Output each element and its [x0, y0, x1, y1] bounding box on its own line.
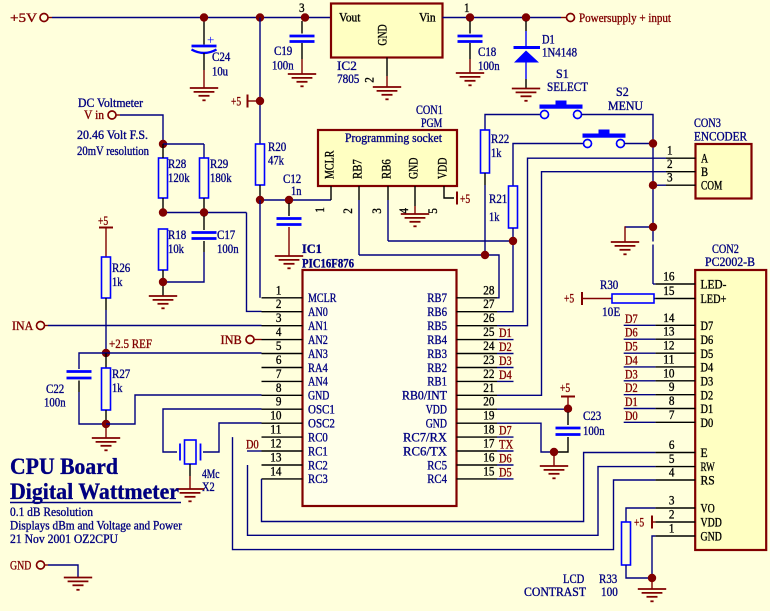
junction C12/MCLR — [285, 196, 293, 204]
wire ground stem C23 node — [553, 452, 555, 466]
svg-text:VO: VO — [701, 502, 715, 516]
junction S2/common rail — [649, 139, 657, 147]
svg-text:RC6/TX: RC6/TX — [403, 444, 448, 458]
svg-text:GND: GND — [701, 530, 722, 544]
wire ground node to PIC GND pin — [106, 395, 262, 424]
svg-text:22: 22 — [483, 367, 494, 381]
svg-text:RS: RS — [701, 474, 715, 488]
net label D4 on CON2 pin 11 — [624, 366, 656, 368]
svg-text:R33: R33 — [599, 572, 617, 586]
junction R22/RB7 net — [481, 251, 489, 259]
svg-text:VDD: VDD — [426, 403, 447, 417]
wire encoder A to IC1 pin26 RB5 — [497, 158, 666, 326]
net label D6 on IC1 pin 16 — [497, 464, 514, 466]
IC1 pin 11 stub (RC0) — [262, 436, 303, 438]
CON1 pin 5 wire VDD to +5 — [444, 186, 454, 198]
svg-text:D3: D3 — [499, 354, 512, 368]
IC1 pin 27 stub (RB6) — [457, 311, 498, 313]
svg-text:C22: C22 — [46, 382, 64, 396]
svg-text:D5: D5 — [701, 347, 714, 361]
svg-text:CPU Board: CPU Board — [10, 454, 118, 479]
svg-text:RB5: RB5 — [427, 319, 447, 333]
CON2 pin 7 stub (D0) — [655, 421, 695, 423]
svg-text:VDD: VDD — [436, 158, 450, 179]
IC1 pin 2 stub (AN0) — [262, 311, 303, 313]
wire V in to divider — [117, 114, 121, 116]
wire +5V rail from port to IC2 Vout pin — [48, 17, 52, 19]
svg-text:10: 10 — [270, 409, 281, 423]
svg-text:15: 15 — [663, 284, 674, 298]
wire RB7 net CON1 to IC1 pin28 — [359, 255, 499, 298]
resistor R33 — [622, 522, 631, 565]
IC1 pin 18 stub (RC7/RX) — [457, 436, 498, 438]
CON2 pin 9 stub (D2) — [655, 394, 695, 396]
svg-text:D2: D2 — [499, 340, 512, 354]
svg-text:1: 1 — [669, 522, 675, 536]
svg-text:3: 3 — [669, 494, 675, 508]
wire +2.5REF to C22 — [79, 353, 106, 369]
capacitor C17 — [203, 216, 205, 230]
ground at GND port — [64, 578, 92, 590]
svg-text:2: 2 — [667, 157, 673, 171]
svg-text:11: 11 — [663, 352, 674, 366]
net label D0 on IC1 pin 12 — [247, 450, 262, 452]
svg-text:4: 4 — [276, 325, 282, 339]
svg-text:+5: +5 — [231, 95, 241, 109]
net label D0 on CON2 pin 7 — [624, 421, 656, 423]
junction divider mid left — [159, 208, 167, 216]
junction +2.5REF — [102, 349, 110, 357]
wire S2 left to R21 — [513, 144, 584, 187]
IC1 pin 23 stub (RB2) — [457, 367, 498, 369]
svg-text:10k: 10k — [168, 242, 184, 256]
wire AN0 riser — [247, 213, 262, 312]
junction R18/C17 ground node — [159, 278, 167, 286]
svg-text:IC1: IC1 — [302, 242, 322, 256]
wire CON2 pin3 VO to R33 — [626, 508, 655, 522]
capacitor C23 — [567, 412, 569, 425]
IC1 pin 3 stub (AN1) — [262, 325, 303, 327]
svg-text:GND: GND — [426, 417, 447, 431]
junction analog ground node — [102, 420, 110, 428]
CON2 pin 10 stub (D3) — [655, 380, 695, 382]
svg-text:C24: C24 — [212, 50, 231, 64]
svg-text:7805: 7805 — [337, 72, 359, 86]
svg-text:E: E — [701, 446, 708, 460]
svg-text:RB1: RB1 — [427, 375, 447, 389]
resistor R30 — [612, 294, 654, 303]
wire IC1 pin20 VDD to +5/C23 node — [497, 408, 568, 410]
svg-text:1n: 1n — [291, 184, 302, 198]
svg-text:4Mc: 4Mc — [202, 467, 220, 481]
wire ground stem R33 node — [651, 578, 653, 589]
svg-text:R21: R21 — [489, 192, 507, 206]
IC1 pin 15 stub (RC4) — [457, 478, 498, 480]
CON2 pin 14 stub (D7) — [655, 324, 695, 326]
svg-text:CONTRAST: CONTRAST — [524, 585, 586, 599]
svg-text:GND: GND — [407, 158, 421, 179]
svg-text:10u: 10u — [212, 65, 228, 79]
connector CON2 PC2002-B box — [695, 270, 766, 550]
wire S1 right to common rail — [582, 115, 654, 242]
wire R26 bottom to +2.5REF node — [105, 298, 107, 310]
svg-text:14: 14 — [270, 464, 282, 478]
CON2 pin 4 stub (RS) — [655, 479, 695, 481]
net label D2 on CON2 pin 9 — [624, 394, 656, 396]
svg-text:RC2: RC2 — [308, 458, 328, 472]
svg-text:3: 3 — [370, 208, 384, 214]
junction C19/+5V rail — [256, 13, 264, 21]
net label D1 on IC1 pin 25 — [497, 339, 514, 341]
svg-text:100n: 100n — [217, 242, 239, 256]
svg-text:21 Nov 2001 OZ2CPU: 21 Nov 2001 OZ2CPU — [10, 532, 118, 546]
pushbutton S2 MENU — [583, 130, 626, 148]
junction C23 ground node — [550, 448, 558, 456]
ground under C12 — [275, 256, 303, 268]
svg-text:28: 28 — [483, 283, 494, 297]
IC1 pin 13 stub (RC2) — [262, 464, 303, 466]
svg-text:100n: 100n — [583, 424, 605, 438]
IC1 pin 9 stub (OSC1) — [262, 408, 303, 410]
svg-text:MCLR: MCLR — [308, 291, 337, 305]
power tap +5 at R20 node — [247, 95, 249, 108]
CON2 pin 6 stub (E) — [655, 452, 695, 454]
port INA — [37, 322, 45, 330]
svg-text:Vin: Vin — [419, 11, 436, 25]
C18 plates — [458, 36, 483, 42]
port V in — [108, 111, 116, 119]
ground under D1 — [512, 89, 540, 101]
ground under crystal X2 — [176, 489, 204, 501]
junction C24/+5V rail — [200, 13, 208, 21]
wire R22 bottom to RB7 node — [484, 173, 486, 185]
CON3 pin 3 stub — [666, 184, 696, 186]
svg-text:9: 9 — [276, 395, 282, 409]
IC1 pin 4 stub (AN2) — [262, 339, 303, 341]
svg-text:23: 23 — [483, 353, 494, 367]
svg-text:24: 24 — [483, 339, 495, 353]
svg-text:5: 5 — [426, 208, 440, 214]
svg-text:6: 6 — [669, 438, 675, 452]
wire ground stem R27 node — [105, 424, 107, 438]
svg-text:D4: D4 — [499, 368, 512, 382]
svg-text:AN4: AN4 — [308, 375, 328, 389]
svg-text:COM: COM — [701, 179, 722, 193]
ground under R18 — [149, 296, 177, 308]
CON2 pin 15 stub (LED+) — [655, 298, 695, 300]
svg-text:2: 2 — [363, 77, 377, 83]
wire R28 top stub — [162, 144, 164, 158]
svg-text:8: 8 — [276, 381, 282, 395]
svg-text:20mV resolution: 20mV resolution — [77, 144, 149, 158]
diode D1 1N4148 — [514, 21, 541, 88]
svg-text:AN2: AN2 — [308, 333, 328, 347]
IC1 pin 1 stub (MCLR) — [262, 297, 303, 299]
wire C17 bottom to R18 bottom — [203, 241, 205, 252]
junction +5 tap — [256, 97, 264, 105]
svg-text:D6: D6 — [625, 326, 638, 340]
wire R21 bottom to RB6 node — [512, 228, 514, 241]
ground under IC2 pin2 — [373, 87, 401, 99]
wire OSC2 to crystal — [203, 423, 262, 452]
wire R29 bottom to junction — [203, 198, 205, 213]
svg-text:3: 3 — [667, 171, 673, 185]
svg-text:100n: 100n — [272, 59, 294, 73]
svg-text:LCD: LCD — [563, 572, 584, 586]
svg-text:C17: C17 — [217, 228, 236, 242]
svg-text:RC7/RX: RC7/RX — [403, 430, 448, 444]
svg-text:20.46 Volt F.S.: 20.46 Volt F.S. — [77, 128, 148, 142]
svg-text:Vout: Vout — [339, 11, 361, 25]
IC1 pin 28 stub (RB7) — [457, 297, 498, 299]
svg-text:Displays dBm and Voltage and P: Displays dBm and Voltage and Power — [10, 519, 183, 533]
CON2 pin 13 stub (D6) — [655, 338, 695, 340]
wire RB6 net CON1 to IC1 pin27 — [388, 241, 513, 312]
resistor R20 — [256, 144, 265, 185]
wire IC1 pin19 GND to ground node — [497, 423, 551, 452]
svg-text:INB: INB — [221, 333, 242, 347]
wire C12 to ground — [288, 227, 290, 256]
svg-text:+5: +5 — [460, 192, 470, 206]
resistor R29 — [200, 158, 209, 198]
CON2 pin 16 stub (LED-) — [655, 283, 695, 285]
wire C19 to ground — [301, 43, 303, 59]
IC1 pin 14 stub (RC3) — [262, 478, 303, 480]
svg-text:10E: 10E — [602, 305, 620, 319]
svg-text:R26: R26 — [112, 261, 131, 275]
svg-text:17: 17 — [483, 437, 495, 451]
svg-text:5: 5 — [669, 452, 675, 466]
wire divider top to R29 — [163, 143, 204, 145]
svg-text:RB7: RB7 — [427, 291, 447, 305]
pushbutton S1 SELECT — [540, 101, 583, 119]
net label D4 on IC1 pin 22 — [497, 380, 514, 382]
svg-text:1k: 1k — [112, 381, 123, 395]
resistor R18 — [159, 229, 168, 270]
wire INB to AN2 — [255, 339, 262, 341]
net label D7 on CON2 pin 14 — [624, 324, 656, 326]
wire common rail to ground tap — [625, 226, 653, 228]
svg-text:180k: 180k — [210, 171, 232, 185]
svg-text:3: 3 — [299, 1, 305, 15]
svg-text:RB2: RB2 — [427, 361, 447, 375]
wire GND port to ground — [45, 564, 48, 566]
svg-text:Powersupply + input: Powersupply + input — [579, 11, 671, 25]
CON2 pin 2 stub (VDD) — [655, 521, 695, 523]
C12 plates — [277, 219, 302, 225]
svg-text:RC1: RC1 — [308, 444, 328, 458]
svg-text:+2.5 REF: +2.5 REF — [109, 337, 152, 351]
wire MCLR node horizontal — [260, 199, 331, 201]
junction IC2 pin3 node — [301, 13, 309, 21]
CON2 pin 12 stub (D5) — [655, 352, 695, 354]
svg-text:13: 13 — [663, 325, 674, 339]
svg-text:1: 1 — [464, 1, 470, 15]
net label D1 on CON2 pin 8 — [624, 408, 656, 410]
junction VDD/C23 — [564, 405, 572, 413]
svg-text:D0: D0 — [701, 416, 714, 430]
wire IC1 pin14 RC3 to CON2 pin6 E — [262, 453, 656, 522]
CON1 pin 3 wire RB6 — [387, 186, 389, 200]
svg-text:D7: D7 — [701, 319, 714, 333]
svg-text:R27: R27 — [112, 367, 131, 381]
wire C23 bottom to ground node — [557, 437, 568, 452]
wire R27 bottom to ground node — [105, 410, 107, 424]
IC1 pin 10 stub (OSC2) — [262, 422, 303, 424]
resistor R26 — [102, 257, 111, 298]
svg-text:RC3: RC3 — [308, 472, 328, 486]
wire +5V rail drop to R20 — [259, 18, 261, 145]
port Powersupply + input — [567, 14, 575, 22]
net label D3 on CON2 pin 10 — [624, 380, 656, 382]
svg-text:A: A — [701, 152, 709, 166]
wire common rail lower segment to LED- — [652, 245, 654, 285]
svg-text:D0: D0 — [246, 438, 259, 452]
net label D3 on IC1 pin 23 — [497, 367, 514, 369]
C22 plates — [67, 372, 92, 379]
svg-text:D1: D1 — [499, 326, 512, 340]
IC1 pin 20 stub (VDD) — [457, 408, 498, 410]
svg-text:12: 12 — [663, 339, 674, 353]
CON2 pin 5 stub (RW) — [655, 466, 695, 468]
svg-text:OSC1: OSC1 — [308, 403, 335, 417]
CON2 pin 1 stub (GND) — [655, 535, 695, 537]
svg-text:1: 1 — [313, 207, 327, 213]
IC1 pin 12 stub (RC1) — [262, 450, 303, 452]
svg-text:RC0: RC0 — [308, 430, 328, 444]
C23 plates — [556, 428, 581, 435]
svg-text:D1: D1 — [625, 395, 638, 409]
svg-text:D3: D3 — [625, 367, 638, 381]
svg-text:RB6: RB6 — [380, 159, 394, 179]
svg-text:MENU: MENU — [608, 99, 643, 113]
wire INA to AN1 — [45, 325, 48, 327]
ground under R33 — [638, 589, 666, 601]
svg-text:RC4: RC4 — [427, 472, 447, 486]
svg-text:16: 16 — [663, 270, 675, 284]
resistor R22 — [481, 130, 490, 173]
IC1 pin 8 stub (GND) — [262, 394, 303, 396]
svg-text:PGM: PGM — [421, 116, 442, 130]
junction C18 node — [466, 13, 474, 21]
svg-text:PIC16F876: PIC16F876 — [302, 257, 354, 271]
svg-text:Programming socket: Programming socket — [345, 131, 442, 145]
wire encoder COM to common rail — [653, 184, 666, 186]
svg-text:PC2002-B: PC2002-B — [705, 255, 755, 269]
svg-text:C18: C18 — [478, 45, 496, 59]
svg-text:RB0/INT: RB0/INT — [402, 389, 447, 403]
svg-text:R22: R22 — [491, 132, 509, 146]
CON2 pin 3 stub (VO) — [655, 507, 695, 509]
wire R33 bottom to ground node — [626, 565, 649, 578]
wire S2 right to common rail — [625, 143, 654, 145]
svg-text:RB6: RB6 — [427, 305, 447, 319]
CON2 pin 8 stub (D1) — [655, 408, 695, 410]
IC1 pin 21 stub (RB0/INT) — [457, 394, 498, 396]
junction R20/MCLR — [256, 196, 264, 204]
CON1 pin 4 wire GND — [414, 186, 416, 206]
capacitor C12 — [288, 203, 290, 216]
wire R27 top stub — [105, 353, 107, 368]
wire IC1 pin11 RC0 to CON2 pin4 RS — [233, 437, 656, 549]
svg-text:4: 4 — [397, 208, 411, 214]
svg-text:2: 2 — [669, 508, 675, 522]
svg-text:LED+: LED+ — [701, 292, 727, 306]
svg-text:C23: C23 — [583, 409, 601, 423]
svg-text:27: 27 — [483, 297, 495, 311]
svg-text:R20: R20 — [268, 140, 286, 154]
svg-text:R28: R28 — [168, 157, 186, 171]
ground under C23 — [540, 466, 568, 478]
capacitor C19 — [301, 21, 303, 34]
wire OSC1 to crystal — [163, 409, 262, 452]
junction ground tap on common rail — [649, 223, 657, 231]
port GND — [37, 561, 45, 569]
svg-text:47k: 47k — [268, 154, 284, 168]
IC1 pin 25 stub (RB4) — [457, 339, 498, 341]
resistor R30 wiring +5 to LED+ — [581, 292, 583, 305]
microcontroller IC1 PIC16F876 box — [303, 270, 457, 506]
svg-text:120k: 120k — [168, 171, 190, 185]
junction R21/RB6 net — [509, 237, 517, 245]
resistor R21 — [509, 186, 518, 228]
wire encoder B to IC1 pin21 RB0/INT — [497, 172, 666, 396]
svg-text:100n: 100n — [478, 59, 500, 73]
resistor R27 — [102, 368, 111, 410]
svg-text:0.1 dB Resolution: 0.1 dB Resolution — [10, 505, 94, 519]
svg-text:D4: D4 — [701, 361, 714, 375]
wire IC2 Vin to power supply input port — [443, 17, 562, 19]
svg-text:TX: TX — [499, 438, 513, 452]
port INB — [246, 336, 254, 344]
ground for encoder common rail — [611, 242, 639, 254]
wire crystal case to ground — [189, 464, 191, 476]
svg-text:R30: R30 — [600, 278, 618, 292]
net label D5 on CON2 pin 12 — [624, 352, 656, 354]
svg-text:D3: D3 — [701, 374, 714, 388]
IC1 pin 24 stub (RB3) — [457, 353, 498, 355]
ground under C24 — [190, 88, 218, 100]
svg-text:+5: +5 — [634, 516, 644, 530]
ground under C19 — [288, 74, 316, 86]
svg-text:Digital Wattmeter: Digital Wattmeter — [10, 479, 179, 504]
svg-text:SELECT: SELECT — [547, 80, 588, 94]
svg-text:4: 4 — [669, 466, 675, 480]
svg-text:S1: S1 — [556, 67, 569, 81]
wire R20 bottom to MCLR node — [259, 185, 261, 200]
C19 plates — [290, 36, 315, 42]
svg-text:9: 9 — [669, 380, 675, 394]
svg-text:B: B — [701, 165, 708, 179]
svg-text:D5: D5 — [499, 465, 512, 479]
svg-text:CON3: CON3 — [694, 116, 721, 130]
svg-text:100n: 100n — [44, 396, 66, 410]
svg-text:15: 15 — [483, 464, 494, 478]
svg-text:S2: S2 — [616, 85, 629, 99]
svg-text:AN0: AN0 — [308, 305, 328, 319]
voltage regulator IC2 7805 box — [331, 4, 443, 58]
CON2 pin 11 stub (D4) — [655, 366, 695, 368]
svg-text:VDD: VDD — [701, 516, 722, 530]
port +5V — [40, 14, 48, 22]
junction divider mid right — [200, 208, 208, 216]
svg-text:D0: D0 — [625, 409, 638, 423]
svg-text:GND: GND — [10, 559, 31, 573]
capacitor C18 — [469, 21, 471, 34]
svg-text:IC2: IC2 — [337, 59, 357, 73]
CON3 pin 1 stub — [666, 157, 696, 159]
svg-text:D7: D7 — [625, 312, 638, 326]
